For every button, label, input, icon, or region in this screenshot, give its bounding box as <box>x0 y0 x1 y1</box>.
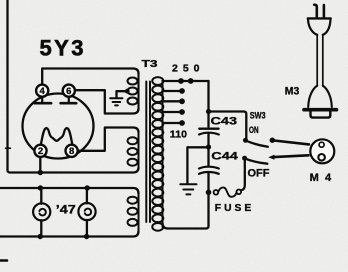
svg-text:5Y3: 5Y3 <box>40 36 84 61</box>
svg-text:C43: C43 <box>211 115 238 127</box>
svg-text:110: 110 <box>170 129 187 141</box>
svg-text:’47: ’47 <box>56 205 76 217</box>
svg-text:2: 2 <box>38 146 43 157</box>
svg-text:4: 4 <box>40 86 46 97</box>
svg-text:8: 8 <box>69 146 74 157</box>
svg-text:6: 6 <box>66 86 71 97</box>
svg-text:C44: C44 <box>211 151 238 163</box>
svg-text:SW3: SW3 <box>250 110 266 121</box>
svg-text:250: 250 <box>172 63 200 75</box>
svg-text:OFF: OFF <box>248 168 270 180</box>
svg-text:T3: T3 <box>142 58 158 70</box>
svg-text:M3: M3 <box>285 86 300 98</box>
svg-text:ON: ON <box>249 124 259 135</box>
